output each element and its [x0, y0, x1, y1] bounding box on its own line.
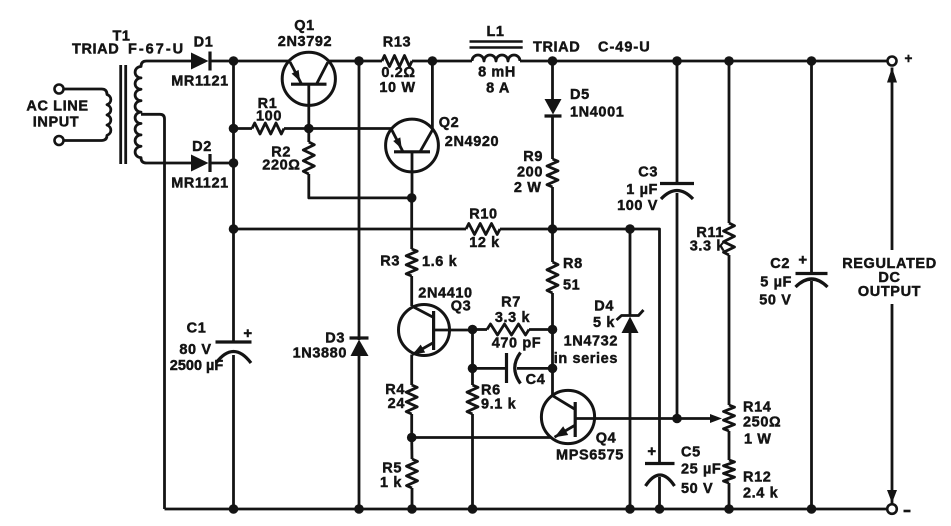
- svg-text:C4: C4: [526, 372, 546, 388]
- junction C3 bottom: [672, 414, 682, 424]
- label 10 W: [379, 80, 415, 96]
- resistor R10: [466, 224, 500, 235]
- label 50 V (C5): [681, 481, 713, 497]
- junction R7 right: [548, 325, 558, 335]
- svg-text:R8: R8: [563, 256, 583, 272]
- wire top rail (left): [234, 60, 291, 63]
- label 1N4001: [570, 105, 624, 121]
- label R2: [271, 145, 291, 161]
- label 5 k: [593, 315, 615, 331]
- svg-text:AC LINE: AC LINE: [26, 99, 88, 115]
- label 1 W: [744, 432, 772, 448]
- svg-text:51: 51: [563, 278, 580, 294]
- svg-text:100: 100: [256, 109, 282, 125]
- svg-text:0.2Ω: 0.2Ω: [381, 65, 415, 81]
- svg-text:C1: C1: [187, 321, 207, 337]
- label 2.4 k: [743, 486, 779, 502]
- resistor R12: [724, 460, 735, 509]
- svg-text:Q4: Q4: [596, 431, 617, 447]
- label 1N3880: [293, 346, 347, 362]
- junction R11 top: [724, 56, 734, 66]
- diode D2: [191, 154, 210, 172]
- svg-text:24: 24: [388, 396, 405, 412]
- svg-text:INPUT: INPUT: [33, 115, 80, 131]
- wire R11 to R14: [728, 255, 731, 405]
- label 24: [388, 396, 405, 412]
- svg-text:C2: C2: [770, 256, 790, 272]
- junction bottom R6: [468, 504, 478, 514]
- wire output arrow (top): [887, 68, 897, 251]
- diode D3: [350, 61, 369, 509]
- label R11: [696, 225, 724, 241]
- label D3: [325, 331, 345, 347]
- svg-text:200: 200: [517, 165, 543, 181]
- label Q3: [451, 299, 472, 315]
- svg-text:OUTPUT: OUTPUT: [858, 284, 921, 300]
- label MR1121 (D2): [171, 176, 229, 192]
- svg-text:+: +: [798, 252, 807, 269]
- wire top rail (R13 to L1): [412, 60, 472, 63]
- label 2 W: [514, 180, 542, 196]
- label + output: [905, 51, 913, 66]
- resistor R2: [303, 129, 314, 175]
- svg-text:2N4920: 2N4920: [445, 134, 499, 150]
- wire output arrow (bottom): [887, 304, 897, 503]
- label 5 uF: [760, 275, 792, 291]
- wire rectifier column: [232, 61, 235, 342]
- svg-text:MR1121: MR1121: [171, 176, 229, 192]
- svg-text:D4: D4: [594, 299, 614, 315]
- wire bottom rail: [165, 508, 888, 511]
- label 3.3 k: [495, 310, 531, 326]
- label 470 pF: [492, 336, 542, 352]
- diode D1: [191, 52, 210, 71]
- resistor R8: [547, 229, 558, 330]
- svg-text:3.3 k: 3.3 k: [690, 239, 726, 255]
- junction Q2 base: [407, 193, 417, 203]
- label 2N4920: [445, 134, 499, 150]
- junction C3 top: [672, 56, 682, 66]
- svg-text:1 W: 1 W: [744, 432, 772, 448]
- wire top rail (middle): [328, 60, 383, 63]
- svg-text:R9: R9: [523, 149, 543, 165]
- svg-text:Q1: Q1: [294, 18, 315, 34]
- svg-text:50 V: 50 V: [759, 293, 791, 309]
- junction bottom D4: [625, 504, 635, 514]
- label 2N3792: [278, 34, 332, 50]
- label 8 A: [486, 81, 510, 97]
- label 1 k: [380, 475, 402, 491]
- label 9.1 k: [481, 397, 517, 413]
- diode D5: [545, 61, 562, 159]
- label 250 ohm: [743, 415, 781, 431]
- capacitor C2: [796, 61, 828, 509]
- wire top rail (right): [520, 60, 888, 63]
- svg-text:D3: D3: [325, 331, 345, 347]
- junction bottom R5: [407, 504, 417, 514]
- svg-text:+: +: [905, 51, 913, 66]
- label D1: [194, 35, 214, 51]
- svg-text:R13: R13: [383, 35, 411, 51]
- wire C4 branch: [471, 330, 474, 369]
- svg-text:8 A: 8 A: [486, 81, 510, 97]
- label C3: [638, 165, 658, 181]
- label Q1: [294, 18, 315, 34]
- resistor R1: [234, 123, 309, 134]
- wire R2 to Q2 base: [309, 174, 412, 198]
- label D4: [594, 299, 614, 315]
- junction D4 top: [625, 224, 635, 234]
- resistor R9: [547, 159, 558, 229]
- junction R8 top: [548, 224, 558, 234]
- label 1N4732: [564, 334, 618, 350]
- svg-text:25 µF: 25 µF: [681, 462, 721, 478]
- svg-text:in series: in series: [554, 351, 618, 367]
- junction C4 right: [548, 364, 558, 374]
- label R9: [523, 149, 543, 165]
- junction bottom C1: [229, 504, 239, 514]
- transformer T1 core: [121, 65, 126, 164]
- junction bottom D3: [354, 504, 364, 514]
- resistor R4: [406, 385, 417, 438]
- svg-text:TRIAD: TRIAD: [72, 42, 119, 58]
- junction R10 tap: [229, 224, 239, 234]
- svg-text:1N4732: 1N4732: [564, 334, 618, 350]
- svg-text:250Ω: 250Ω: [743, 415, 781, 431]
- svg-text:5 k: 5 k: [593, 315, 615, 331]
- label 3.3 k (R11): [690, 239, 726, 255]
- label R5: [382, 461, 402, 477]
- label AC LINE INPUT: [26, 99, 88, 131]
- wire centre tap: [141, 114, 165, 509]
- label 50 V (C2): [759, 293, 791, 309]
- label R13: [383, 35, 411, 51]
- svg-text:9.1 k: 9.1 k: [481, 397, 517, 413]
- wire D2 to junction: [210, 162, 234, 165]
- label 25 uF: [681, 462, 721, 478]
- label TRIAD F-67-U: [72, 42, 185, 58]
- svg-text:R7: R7: [501, 295, 521, 311]
- junction C2 top: [807, 56, 817, 66]
- label R4: [385, 382, 405, 398]
- AC input terminal (bottom): [55, 136, 64, 145]
- svg-text:1 µF: 1 µF: [626, 182, 658, 198]
- label R1: [258, 96, 278, 112]
- junction bottom R12: [724, 504, 734, 514]
- svg-text:D5: D5: [570, 87, 590, 103]
- output + terminal: [888, 57, 897, 66]
- junction bottom C5: [655, 504, 665, 514]
- label R8: [563, 256, 583, 272]
- zener D4: [617, 229, 644, 509]
- transistor Q4: [541, 390, 594, 443]
- wire R10 row (left): [234, 228, 467, 231]
- label 2N4410: [418, 286, 472, 302]
- svg-text:Q3: Q3: [451, 299, 472, 315]
- label D5: [570, 87, 590, 103]
- svg-text:2N3792: 2N3792: [278, 34, 332, 50]
- svg-text:2 W: 2 W: [514, 180, 542, 196]
- svg-text:80 V: 80 V: [179, 342, 211, 358]
- wire Q4 collector to R14 wiper: [595, 414, 723, 423]
- resistor R7: [473, 324, 553, 335]
- junction Q1 base: [304, 124, 314, 134]
- label - output: [904, 510, 911, 513]
- potentiometer R14: [724, 405, 735, 460]
- label C4: [526, 372, 546, 388]
- junction Q3 base node: [468, 325, 478, 335]
- label 200: [517, 165, 543, 181]
- output - terminal: [887, 504, 897, 514]
- label Q2: [439, 115, 460, 131]
- resistor R5: [407, 438, 418, 510]
- junction R4/R5: [407, 433, 417, 443]
- label R3: [380, 254, 400, 270]
- transistor Q2: [386, 61, 439, 198]
- svg-text:+: +: [243, 325, 252, 342]
- svg-text:L1: L1: [486, 24, 504, 40]
- label 1 uF: [626, 182, 658, 198]
- junction Q2 collector: [428, 56, 438, 66]
- svg-text:1N4001: 1N4001: [570, 105, 624, 121]
- label in series: [554, 351, 618, 367]
- svg-text:R12: R12: [743, 470, 771, 486]
- wire D1 to junction: [210, 60, 234, 63]
- resistor R11: [724, 61, 735, 255]
- label TRIAD C-49-U: [533, 40, 651, 56]
- wire Q4 emitter: [412, 436, 551, 439]
- junction D2 tap: [229, 158, 239, 168]
- label 1.6 k: [422, 254, 458, 270]
- wire R7/C4 to Q4 base: [551, 330, 554, 396]
- label REGULATED DC OUTPUT: [842, 256, 937, 300]
- label 12 k: [469, 235, 500, 251]
- junction D5 top: [548, 56, 558, 66]
- svg-text:R10: R10: [469, 207, 497, 223]
- label R7: [501, 295, 521, 311]
- label 51: [563, 278, 580, 294]
- junction rectifier top: [229, 56, 239, 66]
- svg-text:F-67-U: F-67-U: [128, 42, 185, 58]
- svg-text:3.3 k: 3.3 k: [495, 310, 531, 326]
- junction D3 top: [354, 56, 364, 66]
- svg-text:220Ω: 220Ω: [262, 158, 300, 174]
- label R6: [481, 383, 501, 399]
- label L1: [486, 24, 504, 40]
- svg-text:1N3880: 1N3880: [293, 346, 347, 362]
- label R12: [743, 470, 771, 486]
- junction bottom C2: [807, 504, 817, 514]
- junction C4 left: [468, 364, 478, 374]
- svg-text:50 V: 50 V: [681, 481, 713, 497]
- svg-text:100 V: 100 V: [617, 198, 658, 214]
- junction R1 tap: [229, 124, 239, 134]
- svg-text:1.6 k: 1.6 k: [422, 254, 458, 270]
- capacitor C5: [645, 443, 675, 509]
- svg-text:+: +: [647, 443, 656, 460]
- label D2: [192, 139, 212, 155]
- label 0.2 ohm: [381, 65, 415, 81]
- svg-text:MPS6575: MPS6575: [556, 448, 624, 464]
- label T1: [112, 29, 130, 45]
- label 220 ohm: [262, 158, 300, 174]
- svg-text:8 mH: 8 mH: [478, 65, 516, 81]
- resistor R3: [406, 198, 417, 306]
- transistor Q1: [282, 52, 335, 128]
- label C2: [770, 256, 790, 272]
- transformer T1 primary winding: [64, 89, 111, 141]
- label MPS6575: [556, 448, 624, 464]
- resistor R6: [467, 368, 478, 509]
- transformer T1 secondary winding: [135, 61, 191, 163]
- svg-text:1 k: 1 k: [380, 475, 402, 491]
- svg-text:TRIAD: TRIAD: [533, 40, 580, 56]
- svg-text:5 µF: 5 µF: [760, 275, 792, 291]
- inductor L1: [470, 42, 523, 62]
- label 100 V: [617, 198, 658, 214]
- label 100: [256, 109, 282, 125]
- svg-text:470 pF: 470 pF: [492, 336, 542, 352]
- wire R10 row (right): [500, 229, 660, 464]
- svg-text:MR1121: MR1121: [171, 74, 229, 90]
- label C1: [170, 321, 224, 375]
- capacitor C1: [216, 325, 253, 509]
- svg-text:R3: R3: [380, 254, 400, 270]
- capacitor C4: [473, 353, 553, 384]
- svg-text:Q2: Q2: [439, 115, 460, 131]
- svg-text:12 k: 12 k: [469, 235, 500, 251]
- label MR1121 (D1): [171, 74, 229, 90]
- svg-text:C5: C5: [681, 445, 701, 461]
- label C5: [681, 445, 701, 461]
- svg-text:C-49-U: C-49-U: [598, 40, 651, 56]
- wire Q1 base to Q2 emitter: [309, 127, 391, 130]
- svg-text:2.4 k: 2.4 k: [743, 486, 779, 502]
- label 8 mH: [478, 65, 516, 81]
- label Q4: [596, 431, 617, 447]
- svg-text:C3: C3: [638, 165, 658, 181]
- svg-text:2500 µF: 2500 µF: [170, 358, 224, 374]
- transistor Q3: [399, 305, 473, 386]
- capacitor C3: [660, 61, 694, 419]
- svg-text:10 W: 10 W: [379, 80, 415, 96]
- svg-text:D1: D1: [194, 35, 214, 51]
- label R10: [469, 207, 497, 223]
- svg-text:D2: D2: [192, 139, 212, 155]
- svg-text:R14: R14: [743, 400, 771, 416]
- AC input terminal (top): [55, 85, 64, 94]
- label R14: [743, 400, 771, 416]
- resistor R13: [382, 56, 412, 67]
